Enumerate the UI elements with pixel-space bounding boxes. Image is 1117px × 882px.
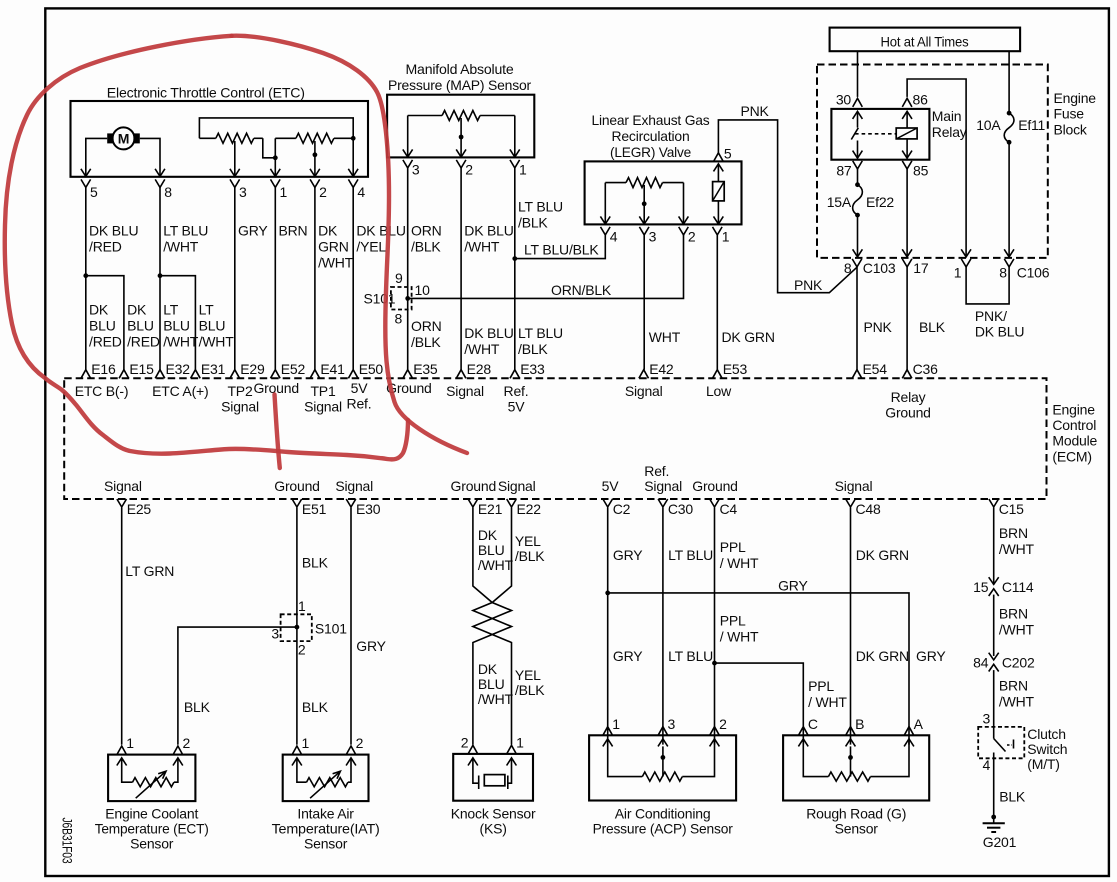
jog wire zigzag1 end to pin 1 node bbox=[263, 138, 276, 158]
svg-text:DK BLU: DK BLU bbox=[464, 223, 513, 239]
svg-text:E30: E30 bbox=[356, 501, 381, 517]
junction dot S101 bbox=[405, 296, 410, 301]
ECM pin E50 fork bbox=[348, 370, 358, 379]
svg-text:/RED: /RED bbox=[89, 334, 122, 350]
svg-text:C114: C114 bbox=[1002, 579, 1034, 595]
svg-text:PNK/: PNK/ bbox=[975, 308, 1007, 324]
LEGR pin 4 connector fork bbox=[601, 227, 611, 235]
relay coil arrow 86 bbox=[902, 111, 912, 119]
svg-text:1: 1 bbox=[516, 734, 524, 750]
svg-text:LT BLU: LT BLU bbox=[518, 325, 563, 341]
svg-text:LT BLU: LT BLU bbox=[668, 547, 713, 563]
svg-text:2: 2 bbox=[319, 184, 327, 200]
svg-text:A: A bbox=[914, 716, 924, 732]
svg-text:DK BLU: DK BLU bbox=[464, 325, 513, 341]
svg-text:2: 2 bbox=[688, 229, 696, 245]
ECM pin E25 fork bbox=[117, 499, 127, 507]
svg-text:BRN: BRN bbox=[279, 223, 308, 239]
svg-text:Engine: Engine bbox=[1054, 90, 1097, 106]
svg-text:LT BLU: LT BLU bbox=[668, 648, 713, 664]
svg-text:DK: DK bbox=[478, 661, 498, 677]
junction dot GRY branch bbox=[605, 591, 610, 596]
relay pin 87 connector fork bbox=[853, 161, 863, 169]
svg-text:BLU: BLU bbox=[89, 318, 116, 334]
connector C103 pin 17 fork bbox=[902, 259, 912, 267]
LEGR pin 5 connector fork bbox=[714, 153, 724, 162]
svg-text:Fuse: Fuse bbox=[1054, 106, 1085, 122]
pin 2 connector fork bbox=[468, 745, 478, 754]
svg-text:BRN: BRN bbox=[999, 678, 1028, 694]
connector C106 pin 1 fork bbox=[961, 259, 971, 267]
svg-text:BLK: BLK bbox=[999, 788, 1026, 804]
wire BLK clutch switch to ground G201 bbox=[993, 753, 995, 818]
TP2 wiper wire to pin 3 bbox=[234, 141, 236, 176]
wire BLK C103-17 to C36 bbox=[906, 267, 908, 370]
svg-text:(M/T): (M/T) bbox=[1027, 756, 1059, 772]
svg-text:1: 1 bbox=[519, 162, 527, 178]
svg-text:1: 1 bbox=[126, 735, 134, 751]
svg-text:Engine Coolant: Engine Coolant bbox=[105, 806, 198, 822]
svg-text:Signal: Signal bbox=[304, 399, 342, 415]
svg-text:Air Conditioning: Air Conditioning bbox=[615, 806, 711, 822]
svg-text:5V: 5V bbox=[602, 478, 620, 494]
svg-text:C106: C106 bbox=[1017, 265, 1050, 281]
svg-text:Relay: Relay bbox=[891, 389, 926, 405]
wire pin1 top to zigzag2 bbox=[275, 137, 296, 139]
svg-text:/WHT: /WHT bbox=[999, 694, 1035, 710]
Hot at All Times box bbox=[830, 28, 1021, 52]
svg-text:8: 8 bbox=[844, 260, 852, 276]
wire LT BLU/WHT pin8 to E32 bbox=[159, 187, 161, 369]
svg-text:PPL: PPL bbox=[720, 613, 746, 629]
junction dot S101 row2 bbox=[295, 625, 300, 630]
svg-text:2: 2 bbox=[356, 735, 364, 751]
ECM pin E51 fork bbox=[292, 499, 302, 507]
pin 1 connector fork bbox=[507, 745, 517, 754]
svg-text:8: 8 bbox=[164, 184, 172, 200]
svg-text:J6B31F03: J6B31F03 bbox=[60, 818, 76, 864]
svg-text:BLU: BLU bbox=[127, 318, 154, 334]
wire PNK LEGR pin5 to fuse block bbox=[718, 120, 857, 293]
svg-text:E33: E33 bbox=[520, 361, 545, 377]
svg-text:Module: Module bbox=[1052, 433, 1097, 449]
splice S101 (row2) dashed box bbox=[281, 614, 312, 641]
svg-text:E16: E16 bbox=[91, 361, 116, 377]
svg-text:S101: S101 bbox=[315, 621, 347, 637]
junction dot LT BLU/BLK branch bbox=[512, 256, 517, 261]
svg-text:E35: E35 bbox=[413, 361, 438, 377]
svg-text:5V: 5V bbox=[508, 399, 526, 415]
svg-text:/ WHT: / WHT bbox=[808, 694, 847, 710]
svg-text:Ground: Ground bbox=[885, 405, 931, 421]
svg-text:4: 4 bbox=[357, 184, 365, 200]
svg-text:Clutch: Clutch bbox=[1027, 726, 1065, 742]
branch wire to E15 bbox=[86, 276, 124, 370]
svg-text:E53: E53 bbox=[723, 361, 748, 377]
red annotation short stroke bbox=[275, 395, 280, 469]
svg-text:DK BLU: DK BLU bbox=[89, 223, 138, 239]
svg-text:PNK: PNK bbox=[741, 103, 770, 119]
svg-text:C48: C48 bbox=[856, 501, 881, 517]
wire LT BLU C30 to ACP pin 3 bbox=[662, 508, 664, 745]
svg-text:2: 2 bbox=[719, 716, 727, 732]
svg-text:Rough Road (G): Rough Road (G) bbox=[806, 806, 906, 822]
svg-text:8: 8 bbox=[999, 265, 1007, 281]
ECM pin C15 fork bbox=[989, 499, 999, 507]
svg-text:S101: S101 bbox=[364, 291, 396, 307]
wire DK BLU/WHT E21 twisted pair bbox=[473, 508, 512, 745]
motor M (throttle motor) bbox=[107, 127, 140, 149]
junction dot E32 branch bbox=[158, 273, 163, 278]
svg-text:Recirculation: Recirculation bbox=[612, 128, 690, 144]
ECM pin C4 fork bbox=[710, 499, 720, 507]
IAT internal thermistor bbox=[292, 758, 302, 766]
wire relay 85 to C103 pin 17 bbox=[906, 168, 908, 257]
svg-text:C15: C15 bbox=[999, 501, 1024, 517]
relay coil lower arrow 85 bbox=[906, 139, 908, 158]
svg-text:GRY: GRY bbox=[613, 547, 643, 563]
MAP internal rail and resistor bbox=[408, 115, 442, 117]
connector C106 pin 8 fork bbox=[1004, 259, 1014, 267]
svg-text:5: 5 bbox=[90, 184, 98, 200]
svg-text:Signal: Signal bbox=[104, 478, 142, 494]
svg-text:Ef22: Ef22 bbox=[866, 194, 894, 210]
svg-text:/WHT: /WHT bbox=[478, 557, 514, 573]
svg-text:Signal: Signal bbox=[835, 478, 873, 494]
svg-text:E21: E21 bbox=[478, 501, 503, 517]
wire DK BLU/YEL pin4 to E50 bbox=[352, 187, 354, 369]
LEGR pin2 wire inside bbox=[683, 183, 685, 224]
svg-text:17: 17 bbox=[913, 260, 929, 276]
svg-text:/BLK: /BLK bbox=[515, 548, 545, 564]
svg-text:BLK: BLK bbox=[184, 699, 211, 715]
svg-text:E28: E28 bbox=[467, 361, 492, 377]
pin 2 connector fork bbox=[346, 746, 356, 755]
svg-text:/BLK: /BLK bbox=[515, 682, 545, 698]
svg-text:C103: C103 bbox=[863, 260, 896, 276]
ECM pin C36 fork bbox=[902, 370, 912, 379]
svg-text:Relay: Relay bbox=[932, 124, 967, 140]
svg-text:BLK: BLK bbox=[302, 699, 329, 715]
svg-text:/WHT: /WHT bbox=[464, 341, 500, 357]
ECM pin E28 fork bbox=[456, 370, 466, 379]
LEGR internal rail and resistor bbox=[605, 182, 626, 184]
svg-text:B: B bbox=[855, 716, 864, 732]
svg-text:C30: C30 bbox=[668, 501, 693, 517]
svg-text:/WHT: /WHT bbox=[318, 255, 354, 271]
svg-text:LT GRN: LT GRN bbox=[125, 563, 174, 579]
junction dot E16 branch bbox=[83, 273, 88, 278]
pin 1 connector fork bbox=[603, 727, 613, 736]
svg-text:PNK: PNK bbox=[794, 277, 823, 293]
svg-text:DK: DK bbox=[89, 302, 109, 318]
svg-text:/BLK: /BLK bbox=[411, 239, 441, 255]
wire PPL/WHT C4 to ACP pin 2 bbox=[714, 508, 716, 745]
relay pin 30 connector fork bbox=[853, 98, 863, 107]
svg-text:/WHT: /WHT bbox=[464, 239, 500, 255]
pin C connector fork bbox=[799, 727, 809, 736]
red highlight annotation (top/right) bbox=[232, 36, 467, 453]
ground symbol G201 bbox=[991, 815, 996, 820]
svg-text:BLK: BLK bbox=[302, 554, 329, 570]
svg-text:(ECM): (ECM) bbox=[1052, 448, 1091, 464]
svg-text:2: 2 bbox=[183, 735, 191, 751]
svg-text:3: 3 bbox=[649, 229, 657, 245]
svg-text:LT BLU: LT BLU bbox=[518, 199, 563, 215]
svg-text:/BLK: /BLK bbox=[518, 341, 548, 357]
svg-text:Switch: Switch bbox=[1027, 741, 1067, 757]
relay coil box bbox=[896, 128, 917, 139]
svg-text:2: 2 bbox=[461, 734, 469, 750]
svg-text:YEL: YEL bbox=[515, 667, 541, 683]
svg-text:PPL: PPL bbox=[720, 539, 746, 555]
relay switch lower arrow bbox=[857, 141, 859, 159]
svg-text:DK: DK bbox=[478, 527, 498, 543]
wire PNK C103-8 to E54 bbox=[856, 267, 858, 370]
connector C202 inline bbox=[989, 653, 999, 660]
ECT internal thermistor bbox=[117, 758, 127, 766]
relay pin 85 connector fork bbox=[902, 161, 912, 169]
ETC pin 5 connector fork bbox=[81, 179, 91, 187]
svg-text:DK GRN: DK GRN bbox=[856, 648, 909, 664]
pin 2 connector fork bbox=[710, 727, 720, 736]
MAP pin 2 connector fork bbox=[456, 160, 466, 168]
svg-text:/WHT: /WHT bbox=[163, 334, 199, 350]
svg-text:Linear Exhaust Gas: Linear Exhaust Gas bbox=[592, 112, 710, 128]
ECM pin C2 fork bbox=[603, 499, 613, 507]
svg-text:Signal: Signal bbox=[644, 478, 682, 494]
ECM pin C30 fork bbox=[658, 499, 668, 507]
svg-text:85: 85 bbox=[913, 163, 929, 179]
relay switch contact 30 arrow bbox=[853, 111, 863, 119]
svg-text:5: 5 bbox=[724, 146, 732, 162]
svg-text:3: 3 bbox=[983, 711, 991, 727]
svg-text:DK: DK bbox=[318, 223, 338, 239]
svg-text:Block: Block bbox=[1054, 122, 1088, 138]
svg-text:4: 4 bbox=[983, 757, 991, 773]
MAP pin1 wire inside bbox=[514, 116, 516, 158]
fuse Ef22 15A bbox=[857, 168, 859, 185]
wire PPL/WHT branch to Rough Road pin C bbox=[715, 663, 804, 745]
ECM pin E41 fork bbox=[310, 370, 320, 379]
ECM pin E32 fork bbox=[155, 370, 165, 379]
svg-text:2: 2 bbox=[298, 642, 306, 658]
svg-text:LT: LT bbox=[163, 302, 179, 318]
svg-text:3: 3 bbox=[271, 626, 279, 642]
svg-text:YEL: YEL bbox=[515, 533, 541, 549]
pin 1 connector fork bbox=[292, 746, 302, 755]
svg-text:Ground: Ground bbox=[451, 478, 497, 494]
ECM pin E22 fork bbox=[507, 499, 517, 507]
ECM pin E29 fork bbox=[230, 370, 240, 379]
ECM pin E31 fork bbox=[191, 370, 201, 379]
pin 2 connector fork bbox=[173, 746, 183, 755]
junction dot PPL/WHT branch bbox=[712, 661, 717, 666]
svg-text:Sensor: Sensor bbox=[130, 836, 174, 852]
ECM pin E30 fork bbox=[346, 499, 356, 507]
svg-text:8: 8 bbox=[395, 311, 403, 327]
svg-text:E25: E25 bbox=[127, 501, 152, 517]
svg-text:Engine: Engine bbox=[1052, 401, 1095, 417]
svg-text:87: 87 bbox=[836, 163, 852, 179]
svg-text:/YEL: /YEL bbox=[356, 239, 386, 255]
TP1 wiper wire to pin 2 bbox=[314, 141, 316, 176]
svg-text:1: 1 bbox=[954, 265, 962, 281]
svg-text:E32: E32 bbox=[166, 361, 191, 377]
svg-text:E50: E50 bbox=[359, 361, 384, 377]
MAP pin 3 connector fork bbox=[403, 160, 413, 168]
svg-text:(KS): (KS) bbox=[479, 821, 506, 837]
svg-text:BLU: BLU bbox=[199, 318, 226, 334]
svg-text:G201: G201 bbox=[983, 834, 1017, 850]
wire WHT LEGR pin3 to E42 bbox=[643, 235, 645, 370]
svg-text:1: 1 bbox=[298, 598, 306, 614]
Engine Coolant Temperature (ECT) Sensor box bbox=[108, 755, 195, 802]
svg-text:BLK: BLK bbox=[919, 319, 946, 335]
svg-text:C202: C202 bbox=[1002, 654, 1035, 670]
svg-text:15: 15 bbox=[973, 579, 989, 595]
wire DK BLU/RED pin5 to E16 bbox=[85, 187, 87, 369]
svg-text:/ WHT: / WHT bbox=[720, 555, 759, 571]
svg-text:ETC B(-): ETC B(-) bbox=[75, 383, 129, 399]
Engine Control Module (ECM) dashed box bbox=[64, 378, 1046, 499]
svg-text:Ef11: Ef11 bbox=[1018, 117, 1045, 133]
clutch switch contact bbox=[993, 727, 995, 739]
svg-text:Knock Sensor: Knock Sensor bbox=[451, 806, 536, 822]
ECM pin E42 fork bbox=[639, 370, 649, 379]
junction dot top rail right bbox=[351, 136, 356, 141]
pin 1 wire inside ETC bbox=[274, 138, 276, 176]
potentiometer TP2 zigzag bbox=[216, 133, 254, 143]
svg-text:GRY: GRY bbox=[916, 648, 946, 664]
svg-text:C36: C36 bbox=[913, 361, 938, 377]
svg-text:DK BLU: DK BLU bbox=[356, 223, 405, 239]
svg-text:TP1: TP1 bbox=[310, 383, 335, 399]
svg-text:1: 1 bbox=[612, 716, 620, 732]
svg-text:Pressure (ACP) Sensor: Pressure (ACP) Sensor bbox=[593, 821, 734, 837]
svg-text:Ref.: Ref. bbox=[504, 383, 529, 399]
LEGR pin 2 connector fork bbox=[679, 227, 689, 235]
svg-text:Signal: Signal bbox=[335, 478, 373, 494]
wire PNK/DK BLU U-link bbox=[966, 267, 1009, 304]
svg-text:BRN: BRN bbox=[999, 525, 1028, 541]
fuse Ef11 10A bbox=[1008, 51, 1010, 113]
svg-text:/WHT: /WHT bbox=[163, 239, 199, 255]
wire LT GRN E25 to ECT pin 1 bbox=[121, 508, 123, 745]
wire DK GRN C48 to Rough Road pin B bbox=[850, 508, 852, 745]
svg-text:PPL: PPL bbox=[808, 678, 834, 694]
ACP internal element bbox=[603, 739, 613, 747]
wire motor right to ETC pin 8 bbox=[140, 138, 160, 176]
svg-text:PNK: PNK bbox=[864, 319, 893, 335]
splice S101 (row1) dashed box bbox=[391, 287, 412, 310]
svg-text:LT: LT bbox=[199, 302, 215, 318]
wire BRN/WHT C114 to C202 bbox=[993, 595, 995, 656]
ECM pin E21 fork bbox=[468, 499, 478, 507]
relay switch blade bbox=[851, 128, 858, 140]
svg-text:/WHT: /WHT bbox=[999, 541, 1035, 557]
svg-text:/WHT: /WHT bbox=[478, 691, 514, 707]
svg-text:Signal: Signal bbox=[221, 399, 259, 415]
svg-text:ORN/BLK: ORN/BLK bbox=[551, 282, 612, 298]
Clutch Switch (M/T) dashed box bbox=[978, 727, 1024, 758]
wire ORN/BLK LEGR pin2 to splice S101 bbox=[408, 235, 684, 299]
ETC pin 3 connector fork bbox=[230, 179, 240, 187]
svg-text:E42: E42 bbox=[649, 361, 674, 377]
wire GRY C2 to ACP pin 1 bbox=[607, 508, 609, 745]
svg-text:BLU: BLU bbox=[478, 542, 505, 558]
svg-text:Temperature (ECT): Temperature (ECT) bbox=[95, 821, 209, 837]
svg-text:1: 1 bbox=[302, 735, 310, 751]
ECM pin E15 fork bbox=[119, 370, 129, 379]
connector C103 pin 8 fork bbox=[852, 259, 862, 267]
svg-text:DK GRN: DK GRN bbox=[722, 329, 775, 345]
wire BRN/WHT C202 to clutch switch pin 3 bbox=[993, 670, 995, 727]
wire DK BLU/WHT MAP pin2 to E28 bbox=[460, 168, 462, 370]
svg-text:E15: E15 bbox=[129, 361, 154, 377]
svg-text:GRY: GRY bbox=[778, 577, 808, 593]
svg-text:3: 3 bbox=[412, 162, 420, 178]
wire BRN/WHT C15 to C114 bbox=[993, 508, 995, 585]
svg-text:DK GRN: DK GRN bbox=[856, 547, 909, 563]
Electronic Throttle Control (ETC) box bbox=[71, 101, 369, 177]
svg-text:3: 3 bbox=[668, 716, 676, 732]
TP sensor top rail bbox=[199, 118, 353, 138]
LEGR solenoid element bbox=[714, 164, 724, 172]
ECM pin E52 fork bbox=[271, 370, 281, 379]
ECM pin C48 fork bbox=[846, 499, 856, 507]
Rough Road internal element bbox=[798, 739, 808, 747]
svg-text:ORN: ORN bbox=[411, 318, 442, 334]
svg-text:LT BLU: LT BLU bbox=[163, 223, 208, 239]
junction dot MAP wiper bbox=[459, 135, 464, 140]
wire GRY branch to Rough Road pin A bbox=[608, 593, 909, 745]
junction dot pin1 node bbox=[273, 155, 278, 160]
branch wire to E31 bbox=[160, 276, 195, 370]
svg-text:Electronic Throttle Control (E: Electronic Throttle Control (ETC) bbox=[107, 84, 305, 100]
ECM pin E53 fork bbox=[713, 370, 723, 379]
MAP wiper wire to pin 2 bbox=[460, 118, 462, 157]
MAP pin 1 connector fork bbox=[510, 160, 520, 168]
svg-text:9: 9 bbox=[395, 270, 403, 286]
svg-text:E22: E22 bbox=[517, 501, 542, 517]
svg-text:Low: Low bbox=[706, 383, 732, 399]
svg-text:Sensor: Sensor bbox=[304, 836, 348, 852]
Engine Fuse Block dashed box bbox=[817, 65, 1048, 258]
wire LT BLU/BLK MAP pin1 to E33 bbox=[514, 168, 516, 370]
svg-text:Pressure (MAP) Sensor: Pressure (MAP) Sensor bbox=[388, 77, 532, 93]
wire GRY E30 to IAT pin 2 bbox=[350, 508, 352, 745]
LEGR pin 1 connector fork bbox=[713, 227, 723, 235]
svg-text:Control: Control bbox=[1052, 417, 1096, 433]
svg-text:Sensor: Sensor bbox=[835, 821, 879, 837]
svg-text:GRY: GRY bbox=[356, 638, 386, 654]
svg-text:GRN: GRN bbox=[318, 239, 349, 255]
wire GRY pin3 to E29 bbox=[234, 187, 236, 369]
svg-text:15A: 15A bbox=[827, 194, 852, 210]
branch wire LT BLU/BLK to LEGR pin 4 bbox=[515, 235, 606, 259]
svg-text:BLU: BLU bbox=[163, 318, 190, 334]
wire DK GRN/WHT pin2 to E41 bbox=[314, 187, 316, 369]
wire DK GRN LEGR pin1 to E53 bbox=[716, 235, 718, 370]
svg-text:GRY: GRY bbox=[238, 223, 268, 239]
svg-text:Signal: Signal bbox=[498, 478, 536, 494]
ECM pin E33 fork bbox=[510, 370, 520, 379]
wire relay 86 loop to C106 pin 1 bbox=[907, 79, 966, 257]
svg-text:Main: Main bbox=[932, 108, 962, 124]
svg-text:C: C bbox=[808, 716, 818, 732]
svg-text:BLU: BLU bbox=[478, 676, 505, 692]
